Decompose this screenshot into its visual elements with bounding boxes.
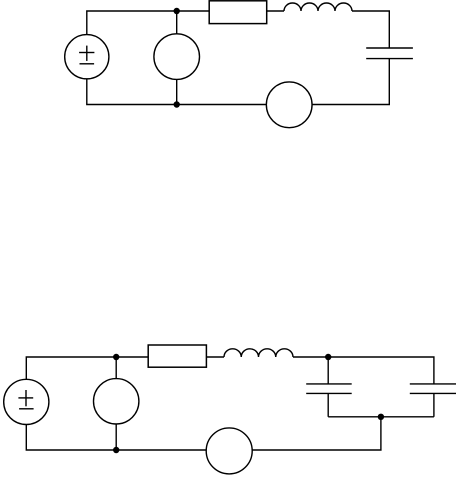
node: bottom junction [174, 101, 180, 107]
node: top junction (bottom circuit) [113, 354, 119, 360]
inductor L1 [284, 3, 352, 11]
wire: inductor to right corner, down to capacitor top plate [352, 11, 389, 48]
resistor R1 [209, 1, 267, 24]
wire: junction branch through meter circle A2 [115, 357, 117, 379]
source/meter circle A1 [154, 34, 200, 80]
wire: inductor to right corner, down to right capacitor [293, 357, 434, 384]
wire: resistor to inductor [267, 10, 284, 12]
capacitor C1 [366, 48, 413, 59]
node: bottom junction (bottom circuit) [113, 447, 119, 453]
wire: drop from connector junction to bottom rail [252, 417, 381, 450]
wire: left capacitor to lower connector [327, 393, 329, 416]
node: capacitor branch junction on top rail [325, 354, 331, 360]
voltage source V1 [65, 35, 109, 79]
wire: meter circle to bottom junction [176, 79, 178, 104]
capacitor C3 (right) [410, 384, 456, 394]
node: top junction [174, 8, 180, 14]
wire: top rail (left corner to resistor) [26, 357, 148, 379]
source/meter circle M1 [266, 82, 312, 128]
wire: left branch of bottom source [26, 424, 206, 450]
wire: junction down to left capacitor [327, 357, 329, 384]
source/meter circle A2 [94, 379, 139, 424]
wire: junction branch through meter circle [176, 11, 178, 34]
wire: resistor to inductor [206, 356, 224, 358]
wire: right capacitor to lower connector [433, 393, 435, 416]
wire: meter circle A2 to bottom junction [115, 424, 117, 450]
node: lower connector junction [378, 414, 384, 420]
voltage source V2 [4, 379, 49, 424]
resistor R2 [148, 345, 206, 367]
source/meter circle M2 [206, 428, 252, 474]
wire: lower connector between capacitors [328, 416, 434, 418]
inductor L2 [224, 349, 293, 357]
capacitor C2 (left) [306, 384, 352, 394]
wire: capacitor bottom plate down to bottom rail [312, 59, 389, 105]
wire: top rail (left corner to resistor) [87, 11, 209, 35]
wire: bottom rail (left portion) [87, 79, 267, 105]
